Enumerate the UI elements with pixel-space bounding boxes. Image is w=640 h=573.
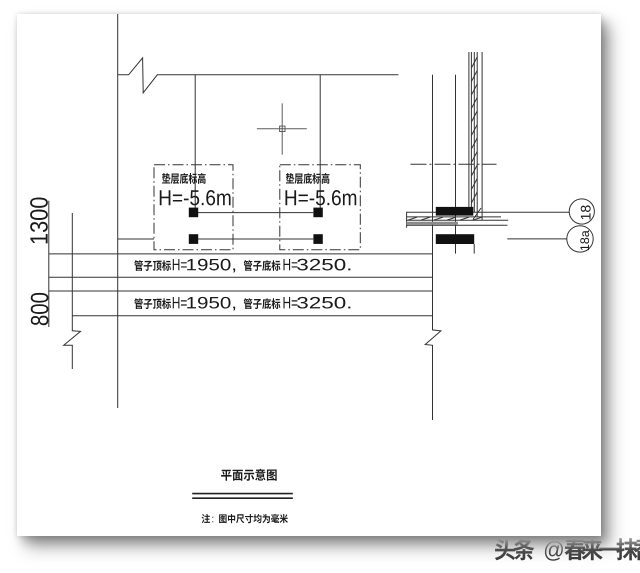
grid bubble 18a — [567, 226, 593, 252]
horizontal centerline — [411, 163, 497, 165]
leader line to circle 18a — [507, 238, 567, 240]
row1 H= — [173, 259, 187, 270]
right pit label 垫层底标高 — [286, 173, 330, 184]
inner right vertical — [455, 75, 457, 254]
column centerline left pit — [194, 75, 196, 208]
grid bubble 18 — [569, 199, 594, 224]
beam end cap — [406, 212, 408, 228]
dimension extension line — [48, 201, 50, 327]
pipe line row2 left stub — [118, 238, 154, 240]
beam top line / leader to circle 18 — [407, 211, 570, 213]
beam hatching — [408, 208, 482, 220]
left pit dashed outline — [154, 165, 233, 250]
row2 H= (2) — [283, 297, 297, 308]
beam line 2 — [407, 216, 501, 218]
trench line 2 — [49, 276, 433, 278]
beam block lower — [436, 234, 474, 244]
row2 label 管子底标 — [244, 298, 281, 309]
pipe line row1 between columns — [198, 212, 314, 214]
channel wall hatching — [471, 57, 477, 203]
note prefix 注 — [202, 514, 210, 523]
row1 3250. — [297, 259, 350, 271]
column centerline right pit — [319, 75, 321, 208]
channel wall line d — [476, 52, 478, 217]
right pit dashed outline — [280, 165, 361, 250]
trench line 1 — [49, 253, 433, 255]
channel wall line b — [470, 52, 472, 208]
column block S1 — [189, 208, 198, 218]
row2 1950, — [187, 297, 235, 311]
note text 图中尺寸均为毫米 — [219, 514, 288, 523]
left vertical line with break — [64, 213, 81, 369]
column block S4 — [313, 234, 322, 244]
row2 3250. — [297, 297, 350, 309]
row1 H= (2) — [283, 259, 297, 270]
column block S2 — [189, 234, 198, 244]
top wall line with break — [118, 58, 399, 93]
channel wall line a — [468, 52, 470, 208]
title 平面示意图 — [221, 469, 277, 481]
channel wall line e — [481, 52, 483, 220]
channel wall line c — [473, 52, 475, 212]
left pit label 垫层底标高 — [162, 173, 206, 184]
beam line 4 — [407, 224, 508, 226]
beam line 3 — [407, 219, 509, 221]
bubble text 18 — [581, 205, 591, 219]
CAD crosshair cursor — [257, 103, 307, 154]
row2 label 管子顶标 — [134, 298, 171, 309]
beam block upper — [436, 207, 474, 216]
trench line 3 — [49, 290, 433, 292]
left pit elevation H=-5.6m — [160, 190, 231, 205]
dimension text 1300 — [30, 197, 48, 243]
dimension text 800 — [31, 293, 49, 325]
bubble text 18a — [580, 230, 589, 250]
stub below beam block — [473, 244, 475, 254]
watermark 头条@春来一抹香 — [495, 538, 640, 560]
pipe line row2 between columns — [198, 238, 314, 240]
note colon — [212, 517, 213, 523]
gray slab bar — [407, 222, 458, 225]
column block S3 — [313, 208, 322, 218]
right grid line with break — [425, 75, 441, 420]
watermark @ — [545, 541, 563, 561]
row1 1950, — [187, 259, 235, 273]
title underline double — [192, 494, 293, 499]
row2 H= — [173, 297, 187, 308]
row1 label 管子顶标 — [134, 260, 171, 271]
trench line 4 — [72, 315, 432, 317]
row1 label 管子底标 — [244, 260, 281, 271]
wall grid line (left vertical) — [117, 14, 119, 408]
right pit elevation H=-5.6m — [285, 190, 356, 205]
